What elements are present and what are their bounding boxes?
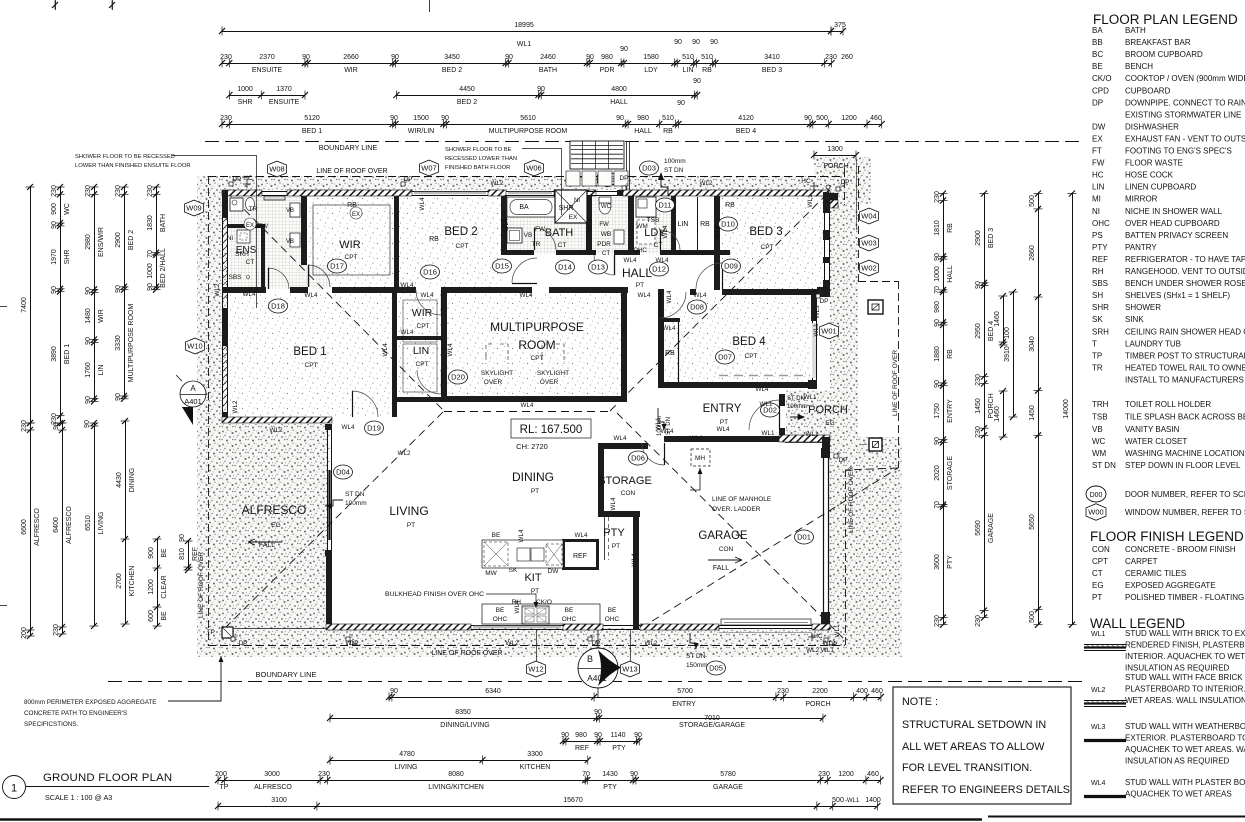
wall pty east — [633, 511, 639, 630]
wall label WL4 at 527,407 — [521, 402, 534, 409]
carpet texture bed3 — [721, 197, 823, 289]
svg-text:D14: D14 — [558, 263, 572, 272]
roof ridge dashed — [444, 411, 610, 413]
svg-text:90: 90 — [677, 100, 685, 107]
svg-text:230: 230 — [975, 426, 982, 438]
tp label se — [861, 444, 867, 446]
svg-text:PORCH: PORCH — [805, 701, 830, 708]
svg-text:D17: D17 — [330, 262, 344, 271]
svg-text:OHC: OHC — [562, 616, 577, 623]
svg-text:CONCRETE PATH TO ENGINEER'S: CONCRETE PATH TO ENGINEER'S — [24, 710, 127, 717]
svg-text:230: 230 — [53, 624, 60, 636]
wir2 labels — [403, 300, 437, 342]
svg-text:90: 90 — [634, 732, 642, 739]
svg-text:RB: RB — [725, 202, 735, 209]
dim left chain4 — [115, 184, 135, 402]
roof dashed bed4 gray — [719, 375, 810, 377]
wall top jambs at door D03 — [554, 190, 623, 196]
svg-text:DP: DP — [591, 640, 600, 647]
svg-text:WL4: WL4 — [662, 225, 669, 238]
svg-text:90: 90 — [51, 221, 58, 229]
svg-text:ENS/WIR: ENS/WIR — [98, 227, 105, 257]
svg-text:WL4: WL4 — [419, 197, 426, 210]
wall exterior south living — [326, 624, 471, 630]
dim left lower5 — [148, 536, 168, 629]
dim left lower6 — [179, 534, 199, 573]
svg-text:MI: MI — [1092, 195, 1101, 204]
svg-text:BATH: BATH — [545, 227, 574, 239]
svg-text:TIMBER POST TO STRUCTURAL ENG': TIMBER POST TO STRUCTURAL ENG'S — [1125, 351, 1245, 360]
svg-text:BULKHEAD FINISH OVER OHC: BULKHEAD FINISH OVER OHC — [385, 591, 484, 598]
wall label WL4 at 407,287 — [401, 282, 414, 289]
svg-text:5120: 5120 — [304, 115, 320, 122]
svg-text:1450: 1450 — [975, 398, 982, 414]
svg-text:TP: TP — [220, 784, 229, 791]
svg-text:1460: 1460 — [994, 406, 1001, 422]
dim right chain4 total — [1063, 191, 1077, 628]
wir1 robe outline — [313, 202, 439, 275]
svg-text:3890: 3890 — [51, 346, 58, 362]
svg-text:TR: TR — [1092, 363, 1103, 372]
svg-text:1580: 1580 — [643, 54, 659, 61]
wall label WL2 at 651,645 — [645, 640, 658, 647]
svg-text:70: 70 — [934, 286, 941, 294]
wall label WL4 at 620,440 — [614, 435, 627, 442]
wall label WL4 at 671,297 — [666, 290, 673, 303]
svg-text:SK: SK — [1092, 315, 1103, 324]
door tag D02 — [761, 403, 780, 417]
svg-text:SHR: SHR — [1092, 303, 1109, 312]
svg-text:BED 3: BED 3 — [749, 226, 782, 238]
wall storage west — [598, 449, 604, 511]
wall legend WL2 — [1084, 673, 1245, 707]
wall exterior top 4 east of D03 — [623, 190, 830, 196]
svg-text:230: 230 — [85, 185, 92, 197]
svg-text:BA: BA — [1092, 26, 1103, 35]
svg-text:RB: RB — [429, 236, 439, 243]
svg-text:D00: D00 — [1090, 492, 1103, 499]
svg-text:70: 70 — [147, 250, 154, 258]
bed4 labels — [665, 336, 766, 360]
door tag D08 — [688, 300, 707, 314]
svg-text:BED 1: BED 1 — [302, 128, 322, 135]
svg-text:DW: DW — [548, 568, 560, 575]
svg-text:SH: SH — [1092, 291, 1103, 300]
svg-text:90: 90 — [115, 393, 122, 401]
legend header wall — [1090, 616, 1185, 631]
legend rows block1 — [1092, 26, 1245, 384]
svg-text:980: 980 — [601, 54, 613, 61]
svg-text:W00: W00 — [1088, 508, 1103, 517]
svg-text:FLOOR WASTE: FLOOR WASTE — [1125, 159, 1183, 168]
svg-text:2700: 2700 — [116, 573, 123, 589]
hall labels — [622, 266, 652, 289]
svg-text:D12: D12 — [652, 265, 666, 274]
bulkhead note — [385, 591, 538, 608]
kit labels — [524, 572, 541, 595]
bed3 labels — [725, 202, 782, 251]
svg-text:460: 460 — [870, 115, 882, 122]
downpipe DP 10 — [816, 292, 822, 298]
svg-text:EXTERIOR. PLASTERBOARD TO INTE: EXTERIOR. PLASTERBOARD TO INTE — [1125, 734, 1245, 743]
roof over label bottom — [431, 650, 502, 657]
svg-text:WL4: WL4 — [661, 428, 674, 435]
svg-text:CT: CT — [602, 251, 610, 257]
window tag W07 — [420, 160, 439, 176]
svg-text:OHC: OHC — [605, 616, 620, 623]
wall wc pdr east — [628, 196, 634, 255]
svg-text:WL4: WL4 — [243, 291, 256, 298]
skylight right — [537, 344, 569, 386]
svg-text:90: 90 — [115, 285, 122, 293]
wall label WL4 at 311,297 — [305, 292, 318, 299]
svg-text:800mm PERIMETER EXPOSED AGGREG: 800mm PERIMETER EXPOSED AGGREGATE — [24, 699, 157, 706]
svg-text:LDY: LDY — [644, 67, 658, 74]
svg-text:90: 90 — [586, 54, 594, 61]
wall exterior top 3 — [554, 190, 596, 196]
svg-text:BE: BE — [161, 611, 168, 621]
svg-text:SHOWER: SHOWER — [1125, 303, 1161, 312]
door tag D13 — [589, 260, 608, 274]
svg-text:1000: 1000 — [934, 266, 941, 282]
door D20 lin — [417, 370, 442, 394]
svg-text:6600: 6600 — [21, 519, 28, 535]
window tag W09 — [185, 200, 204, 216]
svg-text:BROOM CUPBOARD: BROOM CUPBOARD — [1125, 50, 1203, 59]
svg-text:PT: PT — [720, 419, 728, 426]
svg-text:230: 230 — [115, 185, 122, 197]
svg-text:90: 90 — [147, 283, 154, 291]
svg-text:HALL: HALL — [622, 266, 652, 280]
wall storage north / garage top — [598, 436, 779, 449]
svg-text:D10: D10 — [721, 220, 735, 229]
svg-text:WL2: WL2 — [645, 640, 658, 647]
svg-text:WL3: WL3 — [1091, 724, 1106, 731]
kitchen bench upper — [482, 532, 563, 577]
svg-text:14000: 14000 — [1063, 399, 1070, 419]
svg-text:SRH: SRH — [1092, 327, 1109, 336]
svg-text:W01: W01 — [821, 327, 836, 336]
svg-text:ST DN: ST DN — [345, 491, 365, 498]
svg-text:5700: 5700 — [677, 688, 693, 695]
downpipe DP 4 — [836, 185, 842, 191]
svg-text:90: 90 — [616, 115, 624, 122]
wir1 EX fan — [350, 207, 362, 219]
svg-text:100mm: 100mm — [345, 500, 367, 507]
svg-text:4430: 4430 — [116, 472, 123, 488]
svg-text:2860: 2860 — [1029, 245, 1036, 261]
mh manhole — [690, 449, 772, 513]
svg-text:90: 90 — [390, 115, 398, 122]
svg-text:90: 90 — [441, 115, 449, 122]
legend rows block2 — [1092, 400, 1245, 470]
svg-text:CEILING RAIN SHOWER HEAD OVER: CEILING RAIN SHOWER HEAD OVER — [1125, 327, 1245, 336]
dp labels — [232, 175, 849, 648]
svg-text:WL4: WL4 — [503, 218, 510, 231]
section marker B A401 — [578, 630, 621, 698]
svg-text:HC: HC — [1092, 171, 1104, 180]
svg-text:CK/O: CK/O — [536, 599, 552, 606]
window W08 in top wall — [262, 192, 287, 201]
ch label — [516, 442, 548, 451]
svg-text:DP: DP — [232, 176, 241, 183]
wall bed3 east top — [823, 196, 830, 213]
carpet texture multipurpose — [447, 294, 622, 397]
svg-text:-WL1: -WL1 — [845, 798, 860, 804]
boundary line top dashed — [205, 142, 1085, 153]
svg-text:WL4: WL4 — [382, 343, 389, 356]
window W10 left wall — [223, 346, 228, 412]
svg-text:260: 260 — [841, 54, 853, 61]
svg-text:1500: 1500 — [413, 115, 429, 122]
ref label — [573, 553, 587, 560]
svg-text:100mm: 100mm — [664, 158, 686, 165]
svg-text:WIR: WIR — [98, 309, 105, 323]
note stdn top — [658, 158, 686, 196]
ens EX fan — [244, 218, 256, 230]
note stdn alfresco — [325, 491, 367, 509]
door tag D18 — [269, 299, 288, 313]
dim top row2 — [219, 39, 853, 74]
svg-text:WC: WC — [1092, 437, 1106, 446]
wall storage-pty divider — [598, 511, 640, 517]
carpet texture wir1 — [308, 197, 394, 287]
door D14 bath — [534, 228, 556, 250]
svg-text:FLOOR PLAN LEGEND: FLOOR PLAN LEGEND — [1093, 12, 1238, 27]
svg-text:WL1: WL1 — [807, 194, 814, 207]
wall bed1 south — [222, 417, 332, 423]
wall label WL4 at 636,560 — [631, 553, 638, 566]
roof hip dashed garage2 — [641, 468, 898, 628]
wall label WL2 at 512,645 — [506, 640, 519, 647]
svg-text:3410: 3410 — [764, 54, 780, 61]
svg-text:BC: BC — [1092, 50, 1103, 59]
svg-text:TSB: TSB — [647, 217, 660, 224]
svg-text:90: 90 — [934, 319, 941, 327]
svg-text:D20: D20 — [451, 373, 465, 382]
dim top row3 — [226, 78, 701, 106]
window W12 kitchen south — [471, 626, 563, 630]
wall label WL4 at 523,536 — [518, 529, 525, 542]
svg-text:D16: D16 — [423, 268, 437, 277]
door D12 ldy — [660, 230, 680, 250]
svg-text:90: 90 — [934, 380, 941, 388]
svg-text:90: 90 — [561, 732, 569, 739]
dim left total 7400 — [21, 184, 35, 426]
svg-text:BREAKFAST BAR: BREAKFAST BAR — [1125, 38, 1191, 47]
wall label WL4 at 662,262 — [656, 257, 669, 264]
svg-text:LINEN CUPBOARD: LINEN CUPBOARD — [1125, 183, 1196, 192]
ens vanities — [286, 203, 300, 247]
svg-text:SBS: SBS — [228, 274, 242, 281]
svg-text:460: 460 — [867, 771, 879, 778]
svg-text:LIN: LIN — [683, 67, 694, 74]
svg-text:2950: 2950 — [975, 323, 982, 339]
door tag D15 — [493, 259, 512, 273]
svg-text:980: 980 — [637, 115, 649, 122]
svg-text:GARAGE: GARAGE — [713, 784, 743, 791]
svg-text:BE: BE — [565, 607, 574, 614]
door D13 pdr — [594, 255, 615, 275]
door tag D01 — [795, 530, 814, 544]
svg-text:SBS: SBS — [1092, 279, 1108, 288]
svg-text:15670: 15670 — [563, 797, 583, 804]
hose cock top right — [801, 178, 818, 190]
svg-text:EXHAUST FAN - VENT TO OUTSIDE: EXHAUST FAN - VENT TO OUTSIDE — [1125, 134, 1245, 143]
svg-text:1430: 1430 — [602, 771, 618, 778]
svg-text:A401: A401 — [184, 397, 202, 406]
svg-text:900: 900 — [51, 203, 58, 215]
svg-text:100: 100 — [1004, 327, 1011, 339]
svg-text:150mm: 150mm — [686, 662, 708, 669]
svg-text:LIVING: LIVING — [389, 504, 428, 518]
svg-text:AQUACHEK TO WET AREAS: AQUACHEK TO WET AREAS — [1125, 790, 1232, 799]
svg-text:REF: REF — [192, 547, 199, 561]
svg-text:230: 230 — [51, 185, 58, 197]
svg-text:WL4: WL4 — [305, 292, 318, 299]
svg-text:ALL WET AREAS TO ALLOW: ALL WET AREAS TO ALLOW — [902, 741, 1045, 753]
svg-text:LINE OF MANHOLE: LINE OF MANHOLE — [712, 496, 772, 503]
svg-text:ENTRY: ENTRY — [947, 399, 954, 423]
dim bottom row2 — [327, 709, 826, 729]
dim right chain3 — [1029, 191, 1043, 628]
wall legend WL4 — [1084, 778, 1245, 799]
wall garage east thin — [821, 448, 830, 624]
svg-text:CARPET: CARPET — [1125, 557, 1158, 566]
svg-text:FALL: FALL — [713, 565, 729, 572]
svg-text:2900: 2900 — [115, 232, 122, 248]
pdr labels — [597, 222, 611, 257]
wall label WL4 at 696,440 — [690, 435, 703, 442]
wall exterior top — [287, 190, 412, 196]
svg-text:KITCHEN: KITCHEN — [129, 566, 136, 597]
svg-text:BATH: BATH — [160, 214, 167, 232]
door tag D19 — [365, 421, 384, 435]
garage door opening — [719, 619, 812, 633]
svg-text:STORAGE/GARAGE: STORAGE/GARAGE — [679, 722, 745, 729]
wall bed3 east seg3 — [823, 257, 830, 263]
svg-text:CPD: CPD — [1092, 86, 1109, 95]
svg-text:90: 90 — [84, 420, 91, 428]
svg-text:1480: 1480 — [85, 308, 92, 324]
svg-text:CPT: CPT — [416, 361, 429, 368]
svg-text:PORCH: PORCH — [823, 163, 848, 170]
svg-text:90: 90 — [391, 54, 399, 61]
svg-text:WL2: WL2 — [398, 450, 411, 457]
svg-text:1140: 1140 — [610, 732, 625, 739]
wall label WL4 at 348,429 — [342, 424, 355, 431]
svg-text:WL2: WL2 — [823, 640, 836, 647]
dim left chain3 — [85, 184, 105, 404]
wall label WL2 at 276,432 — [270, 427, 283, 434]
svg-text:WIR: WIR — [412, 307, 433, 319]
svg-text:230: 230 — [777, 688, 789, 695]
svg-text:WL4: WL4 — [631, 553, 638, 566]
svg-text:230: 230 — [934, 191, 941, 203]
wall label WL2 WL1 at 820,652 — [806, 647, 834, 654]
svg-text:TRH: TRH — [1092, 400, 1109, 409]
svg-text:W10: W10 — [187, 342, 202, 351]
kitchen bench lower — [482, 599, 620, 624]
svg-text:ENTRY: ENTRY — [672, 701, 696, 708]
svg-text:WL1: WL1 — [762, 430, 775, 437]
wall label WL3 at 819,312 — [814, 305, 821, 318]
note shower bath — [445, 147, 562, 215]
wall ens south + bed1 north — [222, 287, 394, 293]
svg-text:EXISTING STORMWATER LINE: EXISTING STORMWATER LINE — [1125, 110, 1241, 119]
bath labels — [532, 226, 574, 249]
svg-text:1970: 1970 — [51, 249, 58, 265]
svg-text:BA: BA — [519, 204, 529, 211]
svg-text:D03: D03 — [642, 164, 656, 173]
svg-text:ALFRESCO: ALFRESCO — [34, 508, 41, 546]
svg-text:CT: CT — [558, 242, 567, 249]
svg-text:SKYLIGHT: SKYLIGHT — [481, 370, 513, 377]
svg-text:WL4: WL4 — [663, 325, 676, 332]
svg-text:6400: 6400 — [53, 517, 60, 533]
svg-text:SHOWER FLOOR TO BE: SHOWER FLOOR TO BE — [445, 147, 512, 153]
legend header floor finish — [1090, 529, 1244, 544]
svg-text:WL2 WL1: WL2 WL1 — [806, 647, 834, 654]
wall label WL4 at 762,391 — [756, 386, 769, 393]
window W13 south — [603, 626, 640, 630]
svg-text:RB: RB — [702, 67, 712, 74]
window W01 bed4 — [812, 321, 817, 380]
alfresco door D04 sliding — [325, 424, 332, 556]
svg-text:FW: FW — [599, 222, 609, 228]
downpipe DP 1 — [229, 180, 235, 186]
svg-text:5780: 5780 — [720, 771, 736, 778]
svg-text:WL4: WL4 — [614, 435, 627, 442]
wall label WL2 at 237,407 — [232, 400, 239, 413]
svg-text:WL4: WL4 — [624, 257, 637, 264]
svg-text:KIT: KIT — [524, 572, 541, 584]
door tag D05 — [707, 661, 726, 675]
svg-text:PS: PS — [1092, 231, 1103, 240]
svg-text:STORAGE: STORAGE — [598, 475, 652, 487]
wall lin rb divider — [697, 197, 699, 250]
door D16 bed2 wir2 — [416, 290, 442, 315]
svg-text:BOUNDARY LINE: BOUNDARY LINE — [256, 670, 317, 679]
svg-text:RENDERED FINISH, PLASTERBOARD: RENDERED FINISH, PLASTERBOARD — [1125, 641, 1245, 650]
wall porch south — [779, 435, 830, 450]
svg-text:ENTRY: ENTRY — [703, 403, 742, 415]
wall label WL4 at 592,225 — [587, 218, 594, 231]
svg-text:4120: 4120 — [738, 115, 754, 122]
svg-text:90: 90 — [179, 534, 186, 542]
svg-text:FINISHED BATH FLOOR: FINISHED BATH FLOOR — [445, 165, 510, 171]
note perimeter path — [24, 656, 224, 728]
door D02 entry — [749, 400, 780, 431]
roof hip dashed bed1-alfresco — [225, 411, 444, 628]
roof dashed porch ne west — [844, 168, 846, 205]
wall bed4 south — [658, 382, 811, 388]
svg-text:D09: D09 — [724, 262, 738, 271]
svg-text:WINDOW NUMBER, REFER TO SCHEDU: WINDOW NUMBER, REFER TO SCHEDU — [1125, 508, 1245, 517]
svg-text:3910: 3910 — [1004, 346, 1011, 362]
svg-text:230: 230 — [825, 54, 837, 61]
svg-text:WATER CLOSET: WATER CLOSET — [1125, 437, 1187, 446]
note shower ens — [75, 154, 257, 308]
svg-text:WB: WB — [601, 231, 611, 238]
svg-text:OHC: OHC — [633, 248, 647, 254]
svg-text:980: 980 — [575, 732, 587, 739]
downpipe DP 9 — [834, 452, 840, 458]
window tag W05 — [598, 171, 617, 187]
svg-text:WM: WM — [1092, 449, 1107, 458]
svg-text:EG: EG — [825, 420, 834, 427]
svg-text:WL2: WL2 — [232, 400, 239, 413]
